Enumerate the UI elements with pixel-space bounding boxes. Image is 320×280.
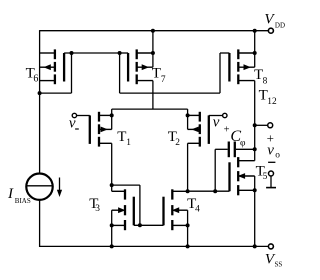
node T6 gate-drain tie dot: [70, 51, 74, 55]
svg-text:3: 3: [95, 204, 100, 214]
wire bias line to T8 gate: [120, 53, 230, 93]
svg-text:φ: φ: [240, 138, 246, 148]
svg-text:4: 4: [195, 205, 200, 215]
node T7 VDD dot: [151, 29, 155, 33]
wire I_BIAS to VSS rail: [39, 200, 41, 247]
wire T1 drain down to T3: [111, 143, 113, 191]
wire v+ to T2 gate: [209, 115, 223, 117]
label output minus: [268, 161, 275, 163]
label V_SS: [265, 252, 282, 269]
node output junction: [253, 123, 257, 127]
node cap output junction: [253, 147, 257, 151]
svg-text:SS: SS: [275, 261, 283, 269]
node T3 gate junction: [138, 223, 142, 227]
node first stage output junctions: [186, 189, 218, 193]
wire lower terminal stub: [266, 176, 276, 188]
capacitor C_phi: [229, 142, 235, 158]
svg-text:5: 5: [263, 172, 268, 182]
svg-text:12: 12: [267, 97, 277, 107]
label T7: [152, 65, 166, 85]
label T1: [117, 129, 131, 148]
label T6: [26, 65, 39, 84]
svg-text:BIAS: BIAS: [15, 197, 31, 205]
transistor T7: [128, 49, 155, 84]
wire cap left to first stage node: [215, 149, 228, 191]
node T8 VDD dot: [253, 29, 257, 33]
transistor T3: [110, 189, 134, 230]
transistor T5: [230, 157, 257, 195]
label C_phi: [230, 128, 246, 148]
svg-text:v: v: [213, 114, 220, 130]
svg-text:DD: DD: [275, 21, 285, 29]
transistor T4: [164, 189, 190, 230]
transistor T2: [186, 112, 209, 147]
node output terminal +: [268, 123, 273, 128]
svg-text:T: T: [117, 129, 126, 145]
wire T3 drain gate loop: [112, 185, 164, 225]
node T5 VSS dot: [253, 244, 257, 248]
wire output tap: [255, 124, 268, 126]
svg-text:6: 6: [33, 74, 38, 85]
svg-text:1: 1: [126, 138, 131, 148]
wire VDD to T6 and bias column: [39, 30, 41, 173]
svg-text:T: T: [152, 65, 161, 81]
svg-text:7: 7: [161, 75, 166, 85]
wire T5 source to VSS: [254, 190, 256, 246]
wire T4 source to VSS: [187, 225, 189, 246]
svg-text:v: v: [69, 115, 76, 131]
wire T8 source to VDD: [254, 31, 256, 53]
wire T6 gate tie down: [39, 53, 72, 93]
current arrow: [57, 178, 62, 198]
node output terminal -: [269, 171, 274, 176]
wire cap right to output: [236, 148, 255, 150]
wire T2 drain down to node: [187, 143, 189, 191]
label T2: [168, 129, 181, 148]
label T4: [187, 196, 200, 215]
node T4 VSS dot: [186, 244, 190, 248]
wire tail bus: [112, 109, 188, 115]
wire VDD rail: [40, 30, 269, 32]
wire T8 drain down to output node: [254, 81, 256, 161]
label v_o: [267, 143, 280, 161]
node v+ input terminal: [223, 113, 227, 117]
wire T7 gate lead: [120, 52, 129, 54]
wire v- to T1 gate: [77, 115, 90, 117]
node T6 drain junction: [38, 91, 42, 95]
node VDD terminal: [268, 28, 273, 33]
node VSS terminal: [268, 244, 273, 249]
svg-text:I: I: [7, 186, 14, 202]
transistor T8: [229, 49, 256, 84]
svg-text:v: v: [267, 143, 274, 159]
node T3 VSS dot: [110, 244, 114, 248]
label v-: [69, 115, 79, 131]
transistor T6: [40, 49, 65, 84]
wire T6 gate to bias node: [64, 52, 120, 54]
transistor T1: [90, 112, 114, 147]
node first stage left node: [110, 183, 114, 187]
wire T3 source to VSS: [111, 225, 113, 246]
current source I_BIAS: [26, 174, 52, 200]
svg-text:o: o: [275, 150, 280, 160]
node bias line junction: [118, 51, 122, 55]
svg-text:+: +: [224, 125, 230, 136]
label v+: [213, 114, 230, 135]
label T5: [256, 164, 268, 183]
wire first stage output to T5 gate: [188, 190, 230, 192]
label V_DD: [264, 12, 285, 30]
wire T7 source to tail bus: [152, 81, 154, 110]
node v- input terminal: [72, 113, 76, 117]
label I_BIAS: [7, 186, 31, 205]
label T3: [89, 196, 100, 214]
svg-text:8: 8: [263, 77, 268, 87]
wire T7 drain to VDD: [152, 31, 154, 53]
label T8: [254, 67, 268, 87]
svg-text:2: 2: [175, 138, 180, 148]
label T12: [259, 88, 277, 107]
svg-text:V: V: [264, 12, 275, 28]
wire VSS rail: [40, 245, 269, 247]
